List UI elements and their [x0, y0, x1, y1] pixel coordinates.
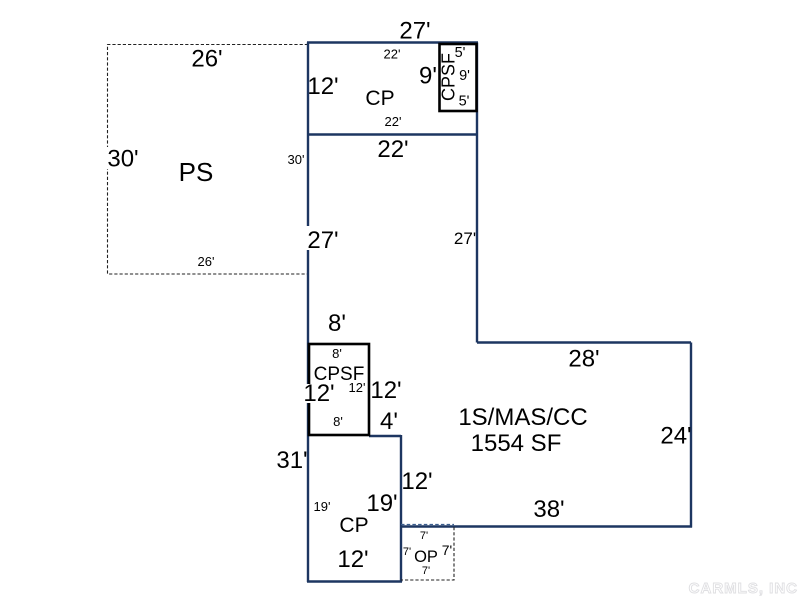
svg-text:38': 38' [533, 496, 564, 523]
svg-text:22': 22' [385, 114, 402, 129]
wall: bottom CP south wall [307, 580, 402, 582]
CPSF box top-right (black) [440, 44, 477, 111]
svg-text:27': 27' [454, 229, 476, 248]
svg-text:19': 19' [314, 499, 331, 514]
wall: CP interior bottom at y134 [308, 133, 477, 135]
svg-text:CARMLS, INC: CARMLS, INC [689, 580, 798, 597]
wall: 38' south wall [401, 525, 692, 527]
svg-text:24': 24' [660, 423, 691, 450]
svg-text:1554 SF: 1554 SF [471, 430, 562, 457]
svg-text:27': 27' [399, 18, 430, 45]
svg-text:12': 12' [307, 73, 338, 100]
svg-text:22': 22' [377, 136, 408, 163]
svg-text:12': 12' [349, 380, 366, 395]
svg-text:7': 7' [442, 542, 452, 558]
svg-text:5': 5' [459, 94, 470, 110]
svg-text:31': 31' [276, 447, 307, 474]
svg-text:12': 12' [401, 468, 432, 495]
wall: bottom CP east wall 19'/12' [400, 435, 402, 582]
svg-text:30': 30' [107, 146, 138, 173]
svg-text:30': 30' [288, 152, 305, 167]
wall: 24' east wall [690, 343, 692, 528]
svg-text:12': 12' [303, 380, 334, 407]
dimension 27' west wall (white backing) [306, 226, 346, 250]
svg-text:9': 9' [459, 68, 470, 84]
svg-text:22': 22' [384, 47, 401, 62]
svg-text:26': 26' [198, 254, 215, 269]
svg-text:26': 26' [191, 46, 222, 73]
svg-text:OP: OP [414, 548, 438, 566]
svg-text:8': 8' [328, 310, 346, 337]
svg-text:28': 28' [568, 346, 599, 373]
svg-text:CP: CP [339, 514, 368, 537]
svg-text:PS: PS [179, 157, 214, 187]
PS dashed parking-slab outline [108, 45, 309, 275]
svg-text:1S/MAS/CC: 1S/MAS/CC [458, 404, 587, 431]
svg-text:9': 9' [419, 63, 437, 90]
svg-text:19': 19' [366, 490, 397, 517]
wall: house west vertical 308 from CP top to bottom CP [307, 43, 309, 583]
wall: east vertical at 477 down to 28' wall [476, 43, 478, 343]
svg-text:8': 8' [332, 346, 342, 361]
svg-text:5': 5' [455, 45, 466, 61]
wall: 4' step [369, 435, 401, 437]
svg-text:12': 12' [337, 546, 368, 573]
svg-text:27': 27' [307, 227, 338, 254]
dimension 12' straddling box left (white backing) [305, 384, 335, 403]
wall: CP top 27' [307, 41, 478, 43]
svg-text:7': 7' [422, 565, 430, 577]
svg-text:12': 12' [370, 377, 401, 404]
svg-text:8': 8' [333, 414, 343, 429]
svg-text:CP: CP [365, 87, 394, 110]
wall: 28' top of main house [477, 341, 691, 343]
CPSF box middle (black) [309, 344, 369, 435]
svg-text:7': 7' [420, 530, 428, 542]
OP open porch dashed right + bottom [401, 527, 454, 580]
dimension 30' PS left (white backing) [106, 147, 142, 169]
OP open porch dashed top (blue) [401, 524, 454, 526]
svg-text:4': 4' [380, 408, 398, 435]
svg-text:7': 7' [403, 546, 411, 558]
